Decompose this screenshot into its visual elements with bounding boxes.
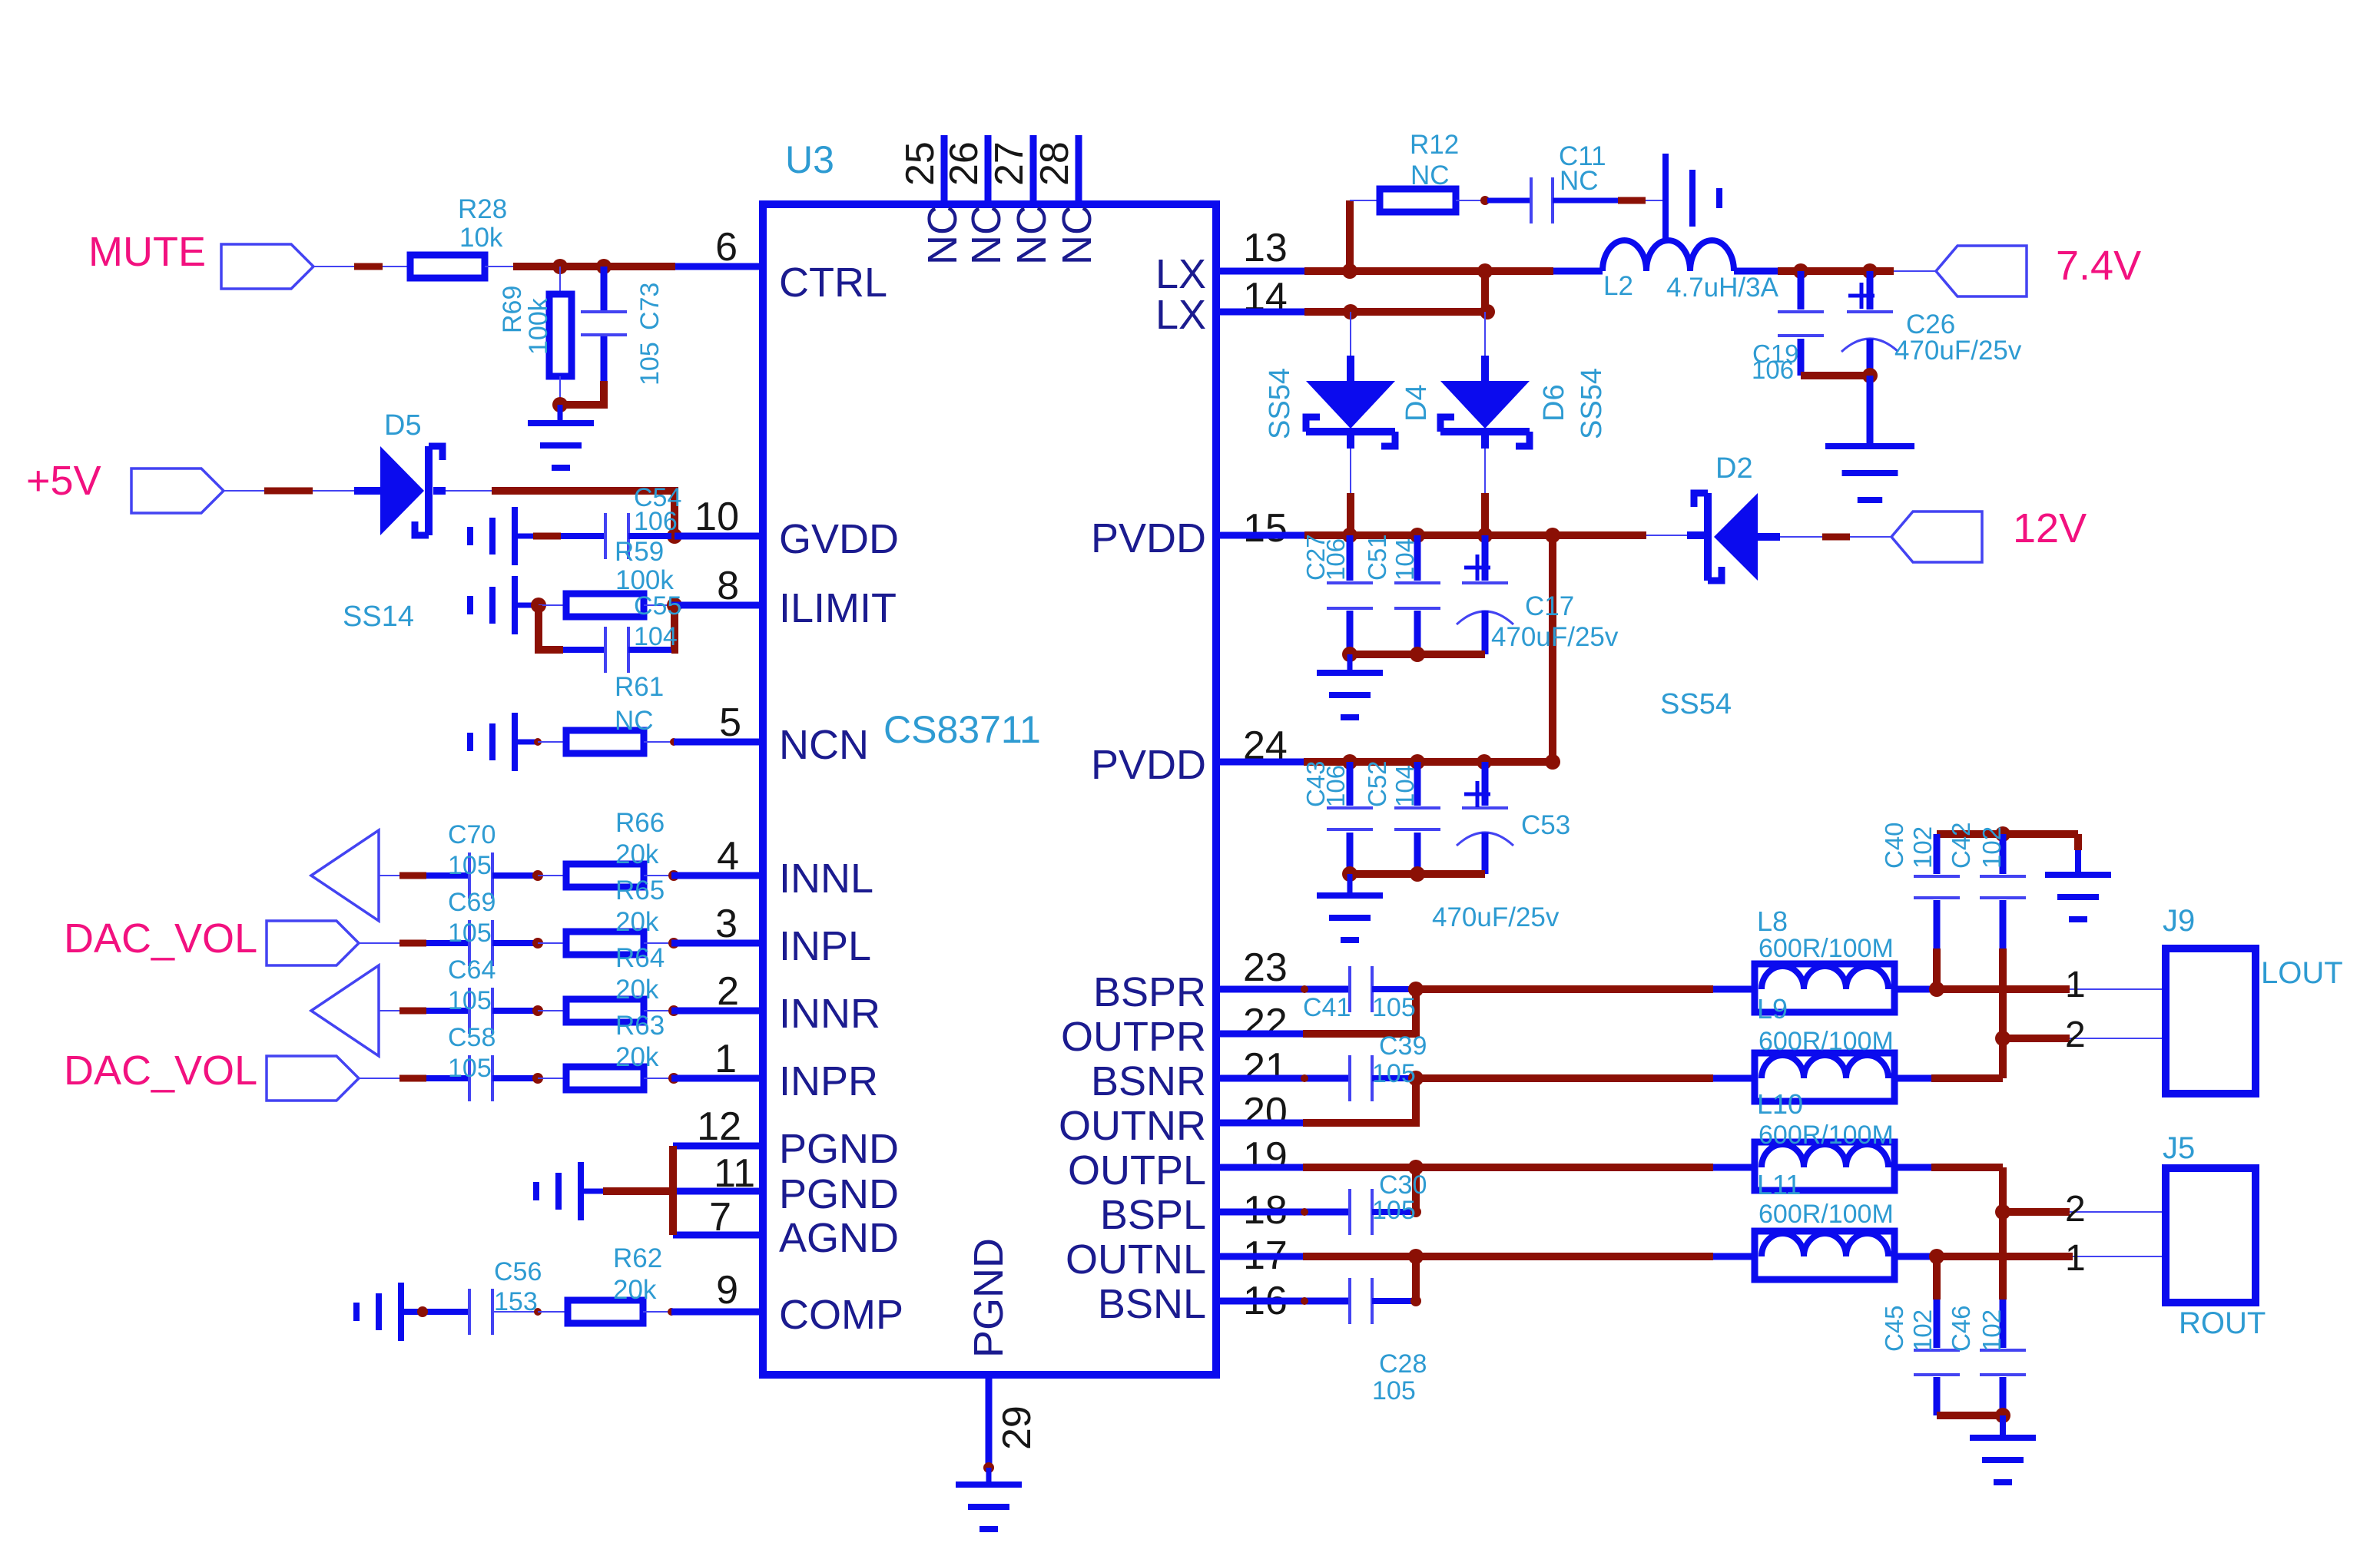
svg-text:23: 23 — [1243, 945, 1288, 990]
svg-text:104: 104 — [634, 622, 678, 651]
svg-text:6: 6 — [715, 225, 738, 270]
svg-text:600R/100M: 600R/100M — [1758, 1121, 1894, 1150]
svg-text:R69: R69 — [498, 286, 527, 333]
svg-text:LOUT: LOUT — [2261, 956, 2343, 990]
svg-text:PGND: PGND — [779, 1171, 899, 1217]
svg-text:104: 104 — [1391, 538, 1419, 581]
svg-text:R12: R12 — [1410, 130, 1459, 160]
svg-text:1: 1 — [2065, 1238, 2086, 1279]
svg-text:D4: D4 — [1400, 384, 1433, 422]
svg-text:27: 27 — [987, 141, 1032, 186]
svg-text:R66: R66 — [615, 808, 665, 838]
svg-text:C42: C42 — [1947, 822, 1975, 869]
svg-text:2: 2 — [2065, 1189, 2086, 1230]
svg-text:9: 9 — [716, 1268, 738, 1313]
svg-text:PGND: PGND — [966, 1238, 1012, 1358]
svg-text:26: 26 — [942, 141, 986, 186]
svg-text:C52: C52 — [1363, 760, 1391, 807]
svg-text:CS83711: CS83711 — [883, 708, 1041, 751]
svg-text:10: 10 — [694, 495, 739, 539]
svg-text:106: 106 — [1752, 356, 1794, 384]
svg-text:20: 20 — [1243, 1090, 1288, 1134]
svg-text:470uF/25v: 470uF/25v — [1432, 902, 1560, 932]
svg-text:D5: D5 — [384, 409, 422, 442]
svg-text:C28: C28 — [1379, 1349, 1427, 1379]
svg-text:INNL: INNL — [779, 856, 873, 902]
svg-text:20k: 20k — [615, 1042, 659, 1072]
svg-text:PVDD: PVDD — [1091, 742, 1206, 788]
svg-text:102: 102 — [1908, 826, 1937, 869]
svg-text:PVDD: PVDD — [1091, 515, 1206, 561]
svg-text:19: 19 — [1243, 1134, 1288, 1179]
svg-text:INPL: INPL — [779, 923, 871, 969]
svg-text:SS14: SS14 — [343, 601, 414, 633]
svg-text:15: 15 — [1243, 506, 1288, 551]
svg-text:600R/100M: 600R/100M — [1758, 1200, 1894, 1229]
svg-text:100k: 100k — [524, 297, 553, 355]
svg-text:D2: D2 — [1715, 452, 1753, 485]
svg-text:C46: C46 — [1947, 1305, 1975, 1352]
svg-text:105: 105 — [448, 919, 492, 948]
svg-text:102: 102 — [1977, 1309, 2006, 1352]
svg-text:SS54: SS54 — [1264, 368, 1296, 439]
svg-text:INPR: INPR — [779, 1058, 878, 1104]
svg-text:600R/100M: 600R/100M — [1758, 934, 1894, 963]
svg-text:153: 153 — [494, 1287, 538, 1316]
svg-text:7.4V: 7.4V — [2056, 243, 2141, 289]
svg-text:CTRL: CTRL — [779, 260, 887, 306]
svg-text:1: 1 — [2065, 965, 2086, 1005]
svg-text:2: 2 — [717, 969, 739, 1014]
svg-text:20k: 20k — [615, 907, 659, 937]
svg-text:1: 1 — [714, 1037, 737, 1081]
svg-text:C45: C45 — [1880, 1305, 1908, 1352]
svg-text:20k: 20k — [615, 839, 659, 869]
svg-text:NC: NC — [1560, 166, 1599, 196]
svg-text:L11: L11 — [1757, 1169, 1801, 1200]
svg-text:R65: R65 — [615, 876, 665, 905]
svg-text:ROUT: ROUT — [2179, 1306, 2266, 1340]
svg-text:L8: L8 — [1757, 905, 1788, 937]
svg-text:20k: 20k — [615, 975, 659, 1005]
svg-text:3: 3 — [715, 902, 738, 946]
svg-text:OUTNR: OUTNR — [1059, 1103, 1206, 1149]
svg-text:106: 106 — [1321, 765, 1350, 807]
svg-text:NC: NC — [1009, 205, 1055, 265]
svg-text:102: 102 — [1977, 826, 2006, 869]
svg-text:NC: NC — [920, 205, 966, 265]
svg-text:NC: NC — [615, 706, 654, 736]
svg-text:13: 13 — [1243, 226, 1288, 270]
svg-text:DAC_VOL: DAC_VOL — [64, 915, 257, 962]
svg-text:OUTNL: OUTNL — [1066, 1237, 1206, 1283]
svg-text:AGND: AGND — [779, 1215, 899, 1261]
svg-text:106: 106 — [634, 507, 678, 536]
svg-text:BSPR: BSPR — [1093, 969, 1206, 1015]
svg-text:105: 105 — [1372, 1376, 1416, 1405]
svg-text:12: 12 — [697, 1104, 741, 1149]
svg-text:NC: NC — [963, 205, 1009, 265]
svg-text:105: 105 — [635, 342, 665, 386]
svg-text:C56: C56 — [494, 1257, 542, 1286]
svg-text:104: 104 — [1391, 765, 1419, 807]
svg-text:470uF/25v: 470uF/25v — [1894, 336, 2022, 366]
svg-text:OUTPL: OUTPL — [1068, 1147, 1206, 1193]
svg-text:NCN: NCN — [779, 722, 869, 768]
svg-text:NC: NC — [1410, 161, 1450, 190]
svg-text:L10: L10 — [1757, 1088, 1803, 1120]
svg-text:NC: NC — [1054, 205, 1100, 265]
svg-text:C40: C40 — [1880, 822, 1908, 869]
svg-text:12V: 12V — [2013, 505, 2087, 551]
svg-text:L9: L9 — [1757, 993, 1788, 1025]
svg-text:+5V: +5V — [26, 458, 101, 504]
svg-text:105: 105 — [448, 851, 492, 880]
svg-text:105: 105 — [448, 986, 492, 1015]
svg-text:R64: R64 — [615, 943, 665, 973]
svg-text:29: 29 — [995, 1405, 1039, 1450]
svg-text:105: 105 — [1372, 993, 1416, 1022]
svg-text:R62: R62 — [613, 1243, 662, 1273]
svg-text:J5: J5 — [2163, 1131, 2195, 1165]
svg-text:R61: R61 — [615, 672, 664, 702]
svg-text:106: 106 — [1321, 538, 1350, 581]
svg-text:LX: LX — [1155, 251, 1206, 297]
svg-text:4: 4 — [717, 834, 739, 879]
svg-text:10k: 10k — [459, 223, 503, 253]
svg-text:C64: C64 — [448, 955, 496, 985]
svg-text:R59: R59 — [615, 537, 664, 567]
svg-text:SS54: SS54 — [1576, 368, 1608, 439]
svg-text:105: 105 — [1372, 1059, 1416, 1088]
svg-text:C53: C53 — [1521, 810, 1570, 840]
svg-text:105: 105 — [448, 1054, 492, 1083]
svg-text:DAC_VOL: DAC_VOL — [64, 1048, 257, 1094]
svg-text:C55: C55 — [634, 591, 681, 621]
svg-text:U3: U3 — [785, 138, 834, 181]
svg-text:20k: 20k — [613, 1275, 657, 1305]
svg-text:C58: C58 — [448, 1023, 496, 1052]
svg-text:OUTPR: OUTPR — [1061, 1014, 1206, 1060]
svg-text:R63: R63 — [615, 1011, 665, 1041]
svg-text:L2: L2 — [1603, 271, 1633, 301]
svg-text:105: 105 — [1372, 1196, 1416, 1225]
svg-text:BSPL: BSPL — [1100, 1192, 1206, 1238]
svg-text:C39: C39 — [1379, 1031, 1427, 1061]
svg-text:BSNL: BSNL — [1098, 1281, 1206, 1327]
svg-text:470uF/25v: 470uF/25v — [1491, 622, 1619, 652]
svg-text:25: 25 — [898, 141, 943, 186]
svg-text:R28: R28 — [458, 194, 507, 224]
svg-text:C41: C41 — [1303, 993, 1351, 1022]
svg-text:INNR: INNR — [779, 991, 880, 1037]
svg-text:C51: C51 — [1363, 534, 1391, 581]
svg-text:102: 102 — [1908, 1309, 1937, 1352]
svg-text:ILIMIT: ILIMIT — [779, 585, 897, 631]
svg-text:LX: LX — [1155, 292, 1206, 338]
svg-text:COMP: COMP — [779, 1292, 903, 1338]
svg-text:MUTE: MUTE — [88, 229, 206, 275]
svg-text:C73: C73 — [635, 283, 665, 330]
svg-text:2: 2 — [2065, 1015, 2086, 1055]
svg-text:22: 22 — [1243, 1001, 1288, 1045]
svg-text:8: 8 — [717, 564, 739, 608]
svg-text:28: 28 — [1033, 141, 1077, 186]
svg-text:D6: D6 — [1538, 384, 1570, 422]
svg-text:PGND: PGND — [779, 1126, 899, 1172]
svg-text:GVDD: GVDD — [779, 516, 899, 562]
svg-text:C69: C69 — [448, 888, 496, 917]
svg-text:4.7uH/3A: 4.7uH/3A — [1666, 273, 1779, 303]
svg-text:600R/100M: 600R/100M — [1758, 1027, 1894, 1056]
svg-text:SS54: SS54 — [1660, 688, 1732, 720]
svg-text:C17: C17 — [1525, 591, 1574, 621]
svg-text:BSNR: BSNR — [1091, 1058, 1206, 1104]
svg-text:C70: C70 — [448, 820, 496, 849]
svg-text:21: 21 — [1243, 1045, 1288, 1090]
svg-text:5: 5 — [719, 700, 741, 745]
svg-text:J9: J9 — [2163, 904, 2195, 938]
